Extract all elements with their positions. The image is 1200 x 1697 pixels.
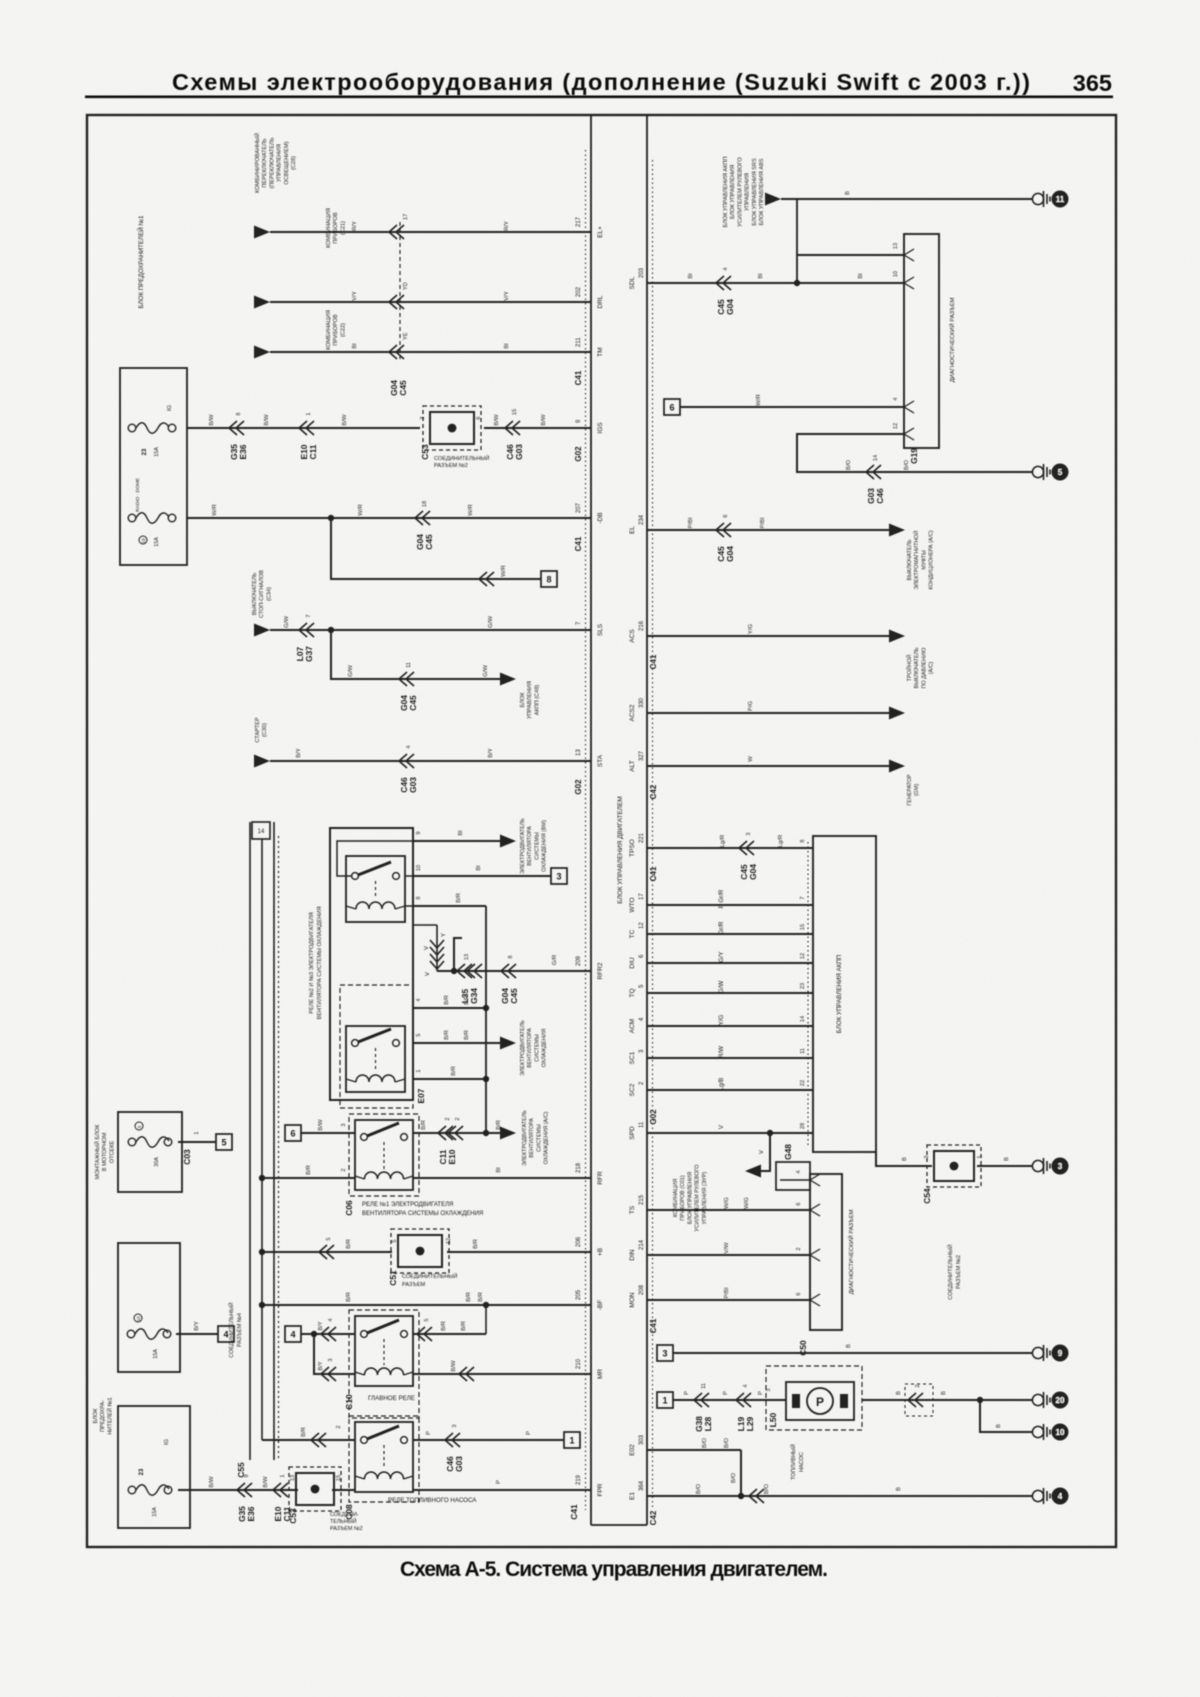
svg-text:R/Y: R/Y bbox=[352, 221, 358, 231]
svg-text:БЛОК УПРАВЛЕНИЯ: БЛОК УПРАВЛЕНИЯ bbox=[730, 165, 736, 219]
svg-text:5: 5 bbox=[1058, 468, 1063, 477]
svg-text:СОЕДИНИТЕЛЬНЫЙ: СОЕДИНИТЕЛЬНЫЙ bbox=[402, 1272, 457, 1280]
svg-text:Bl: Bl bbox=[688, 273, 694, 278]
svg-text:B: B bbox=[996, 1424, 1002, 1428]
svg-text:12: 12 bbox=[893, 423, 899, 429]
wire flag3 row to ground bbox=[657, 1345, 673, 1361]
svg-text:303: 303 bbox=[639, 1434, 645, 1445]
svg-text:C08: C08 bbox=[344, 1504, 354, 1520]
connector C51 - СОЕДИНИТЕЛЬНЫЙ РАЗЪЕМ bbox=[391, 1229, 449, 1273]
fuse box - БЛОК ПРЕДОХРАНИТЕЛЕЙ №1 (top) bbox=[120, 368, 187, 565]
wire C06 pin4 to fan motor A/C bbox=[413, 1132, 500, 1134]
svg-text:ПРИБОРОВ: ПРИБОРОВ bbox=[333, 212, 339, 244]
svg-text:БЛОК ПРЕДОХРАНИТЕЛЕЙ №1: БЛОК ПРЕДОХРАНИТЕЛЕЙ №1 bbox=[137, 215, 145, 308]
svg-text:TPSO: TPSO bbox=[629, 839, 636, 857]
svg-text:214: 214 bbox=[639, 1239, 645, 1250]
svg-text:B/W: B/W bbox=[318, 1119, 324, 1131]
svg-text:B: B bbox=[896, 1391, 902, 1395]
svg-text:ПРИБОРОВ (С01): ПРИБОРОВ (С01) bbox=[680, 1175, 686, 1220]
relay C06 - fan relay no.1 bbox=[349, 1114, 419, 1196]
svg-text:8: 8 bbox=[508, 955, 514, 958]
svg-text:Gr/R: Gr/R bbox=[718, 921, 725, 935]
wire -DB row bbox=[187, 517, 591, 519]
svg-text:B/W: B/W bbox=[451, 1360, 457, 1372]
svg-text:TS: TS bbox=[629, 1205, 636, 1214]
wire C06 pin2 to junction bar bbox=[262, 1177, 355, 1179]
wire fuse to flag 4 bbox=[176, 1333, 218, 1335]
svg-text:ЭЛЕКТРОМАГНИТНОЙ: ЭЛЕКТРОМАГНИТНОЙ bbox=[912, 530, 920, 589]
svg-text:W/G: W/G bbox=[724, 1197, 730, 1209]
svg-text:205: 205 bbox=[576, 1289, 582, 1300]
svg-text:B/O: B/O bbox=[731, 1473, 737, 1484]
svg-text:B/O: B/O bbox=[696, 1484, 702, 1495]
svg-text:(GM): (GM) bbox=[914, 784, 920, 796]
svg-text:207: 207 bbox=[576, 502, 582, 513]
connector C53 - СОЕДИНИТЕЛЬНЫЙ РАЗЪЕМ №2 (bottom) bbox=[289, 1467, 341, 1511]
svg-text:2: 2 bbox=[336, 1425, 342, 1428]
relay box - РЕЛЕ №2 и №3 fan relays (E07) bbox=[330, 828, 413, 1100]
svg-text:Y/G: Y/G bbox=[718, 1014, 725, 1025]
svg-text:18: 18 bbox=[422, 501, 428, 507]
wire pump to grounds bbox=[862, 1399, 1032, 1401]
wire SPD row bbox=[647, 1132, 813, 1134]
svg-text:Bl: Bl bbox=[352, 343, 358, 348]
svg-text:6: 6 bbox=[290, 1128, 295, 1138]
svg-text:327: 327 bbox=[639, 750, 645, 761]
svg-text:15A: 15A bbox=[152, 1507, 158, 1517]
svg-text:14: 14 bbox=[873, 455, 879, 461]
wire MON row bbox=[647, 1299, 810, 1301]
svg-text:B/W: B/W bbox=[209, 1476, 215, 1488]
svg-text:4: 4 bbox=[743, 1384, 749, 1387]
reference flag 6 (right) bbox=[664, 399, 680, 415]
svg-text:C45: C45 bbox=[509, 988, 519, 1004]
svg-text:B/Y: B/Y bbox=[318, 1361, 324, 1370]
svg-text:P/Bl: P/Bl bbox=[724, 1288, 730, 1299]
svg-text:B/O: B/O bbox=[702, 1438, 708, 1449]
svg-text:14: 14 bbox=[258, 829, 265, 835]
svg-text:B/R: B/R bbox=[441, 1321, 447, 1331]
svg-text:V/W: V/W bbox=[724, 1242, 730, 1254]
svg-text:G/R: G/R bbox=[552, 955, 558, 965]
svg-text:215: 215 bbox=[639, 1194, 645, 1205]
svg-text:6: 6 bbox=[796, 1202, 802, 1205]
svg-text:B/R: B/R bbox=[444, 1030, 450, 1040]
svg-text:13: 13 bbox=[576, 749, 582, 756]
svg-text:V: V bbox=[425, 972, 431, 976]
svg-text:ЭЛЕКТРОДВИГАТЕЛЬ: ЭЛЕКТРОДВИГАТЕЛЬ bbox=[522, 1110, 528, 1166]
svg-text:СОЕДИНИТЕЛЬНЫЙ: СОЕДИНИТЕЛЬНЫЙ bbox=[946, 1244, 954, 1299]
svg-text:12: 12 bbox=[800, 953, 806, 959]
svg-text:ТРОЙНОЙ: ТРОЙНОЙ bbox=[905, 654, 913, 681]
svg-text:РЕЛЕ №1 ЭЛЕКТРОДВИГАТЕЛЯ: РЕЛЕ №1 ЭЛЕКТРОДВИГАТЕЛЯ bbox=[362, 1201, 453, 1208]
wire STA row bbox=[254, 755, 270, 768]
svg-text:БЛОК: БЛОК bbox=[93, 1408, 99, 1424]
svg-text:11: 11 bbox=[701, 1383, 707, 1389]
svg-text:B/W: B/W bbox=[541, 414, 547, 426]
svg-text:ВЕНТИЛЯТОРА: ВЕНТИЛЯТОРА bbox=[527, 1028, 533, 1068]
wire ACS row bbox=[647, 635, 889, 637]
svg-text:B/Y: B/Y bbox=[318, 1321, 324, 1330]
svg-text:9: 9 bbox=[416, 831, 422, 834]
svg-text:3: 3 bbox=[556, 871, 561, 881]
svg-text:ДИАГНОСТИЧЕСКИЙ РАЗЪЕМ: ДИАГНОСТИЧЕСКИЙ РАЗЪЕМ bbox=[948, 297, 956, 382]
ground G1 bbox=[1032, 193, 1043, 204]
svg-text:B/R: B/R bbox=[301, 1427, 307, 1437]
svg-text:ACM: ACM bbox=[629, 1019, 636, 1033]
svg-text:КОМБИНАЦИЯ: КОМБИНАЦИЯ bbox=[326, 208, 332, 248]
wire relay3 coil out bbox=[413, 1078, 486, 1080]
svg-text:СИСТЕМЫ: СИСТЕМЫ bbox=[536, 1124, 542, 1152]
svg-text:3: 3 bbox=[924, 1155, 930, 1158]
svg-text:B/W: B/W bbox=[209, 414, 215, 426]
svg-text:17: 17 bbox=[639, 893, 645, 900]
svg-text:6: 6 bbox=[723, 514, 729, 517]
svg-text:ВЕНТИЛЯТОРА: ВЕНТИЛЯТОРА bbox=[529, 1118, 535, 1158]
svg-text:G/Y: G/Y bbox=[718, 952, 725, 963]
svg-text:РЕЛЕ №2 И №3 ЭЛЕКТРОДВИГАТЕЛЯ: РЕЛЕ №2 И №3 ЭЛЕКТРОДВИГАТЕЛЯ bbox=[309, 912, 315, 1013]
svg-text:L28: L28 bbox=[703, 1416, 713, 1431]
svg-text:C53: C53 bbox=[420, 444, 430, 460]
wire fan motor 1 row bbox=[413, 840, 500, 842]
svg-text:YD: YD bbox=[403, 282, 409, 290]
svg-text:B/R: B/R bbox=[496, 1120, 502, 1130]
svg-text:8: 8 bbox=[416, 896, 422, 899]
svg-text:B/R: B/R bbox=[306, 1165, 312, 1175]
svg-text:(С34): (С34) bbox=[266, 587, 272, 601]
svg-text:WTO: WTO bbox=[629, 897, 636, 912]
svg-text:КОМБИНИРОВАННЫЙ: КОМБИНИРОВАННЫЙ bbox=[253, 133, 261, 193]
svg-text:ПРИБОРОВ: ПРИБОРОВ bbox=[333, 314, 339, 346]
svg-text:P/G: P/G bbox=[748, 701, 754, 712]
svg-text:365: 365 bbox=[1073, 70, 1112, 96]
ground G6 bbox=[1032, 1426, 1043, 1437]
svg-text:(С28): (С28) bbox=[291, 156, 297, 170]
svg-text:14: 14 bbox=[800, 1016, 806, 1022]
svg-text:B/R: B/R bbox=[466, 1292, 472, 1302]
svg-text:SPD: SPD bbox=[629, 1126, 636, 1140]
svg-text:Bl: Bl bbox=[858, 273, 864, 278]
reference flag 6 bbox=[285, 1125, 301, 1141]
svg-text:G/W: G/W bbox=[488, 616, 494, 628]
relay 3 (lower) internals bbox=[340, 985, 413, 1108]
svg-text:C41: C41 bbox=[574, 536, 583, 551]
wire relay3 pin4 bbox=[413, 1007, 486, 1009]
svg-text:(С30): (С30) bbox=[262, 723, 268, 737]
svg-text:ACS2: ACS2 bbox=[629, 704, 636, 721]
svg-text:СИСТЕМЫ: СИСТЕМЫ bbox=[534, 832, 540, 860]
svg-text:P/Bl: P/Bl bbox=[688, 518, 694, 529]
svg-text:12: 12 bbox=[446, 1238, 452, 1244]
svg-text:-BF: -BF bbox=[597, 1300, 604, 1311]
reference flag 5 bbox=[216, 1134, 232, 1150]
wire E1 row to ground bbox=[647, 1495, 1032, 1497]
svg-text:ВЕНТИЛЯТОРА: ВЕНТИЛЯТОРА bbox=[527, 826, 533, 866]
svg-text:217: 217 bbox=[576, 216, 582, 227]
svg-text:B/O: B/O bbox=[724, 1438, 730, 1449]
diagnostic connector no.1 box bbox=[904, 234, 939, 448]
svg-text:Y: Y bbox=[441, 933, 447, 937]
svg-text:4: 4 bbox=[893, 397, 899, 400]
outer schematic frame bbox=[87, 115, 1116, 1547]
svg-text:ДИАГНОСТИЧЕСКИЙ РАЗЪЕМ: ДИАГНОСТИЧЕСКИЙ РАЗЪЕМ bbox=[847, 1209, 855, 1294]
svg-text:БЛОК УПРАВЛЕНИЯ: БЛОК УПРАВЛЕНИЯ bbox=[687, 1172, 693, 1224]
ground G7 bbox=[1032, 1490, 1043, 1501]
svg-text:B/Y: B/Y bbox=[488, 748, 494, 758]
svg-text:TC: TC bbox=[629, 929, 636, 938]
wire relay coil B/R down-link bbox=[413, 905, 486, 907]
svg-text:8: 8 bbox=[236, 412, 242, 415]
svg-text:Схема А-5. Система управления: Схема А-5. Система управления двигателем… bbox=[400, 1558, 828, 1581]
svg-text:11: 11 bbox=[1056, 195, 1065, 204]
wire branch -DB to flag B bbox=[331, 518, 541, 579]
svg-text:B/O: B/O bbox=[846, 460, 852, 471]
svg-text:E10: E10 bbox=[447, 1149, 457, 1164]
svg-text:C41: C41 bbox=[649, 866, 658, 881]
svg-text:5: 5 bbox=[424, 1318, 430, 1321]
svg-text:15A: 15A bbox=[154, 537, 160, 547]
svg-text:B/R: B/R bbox=[478, 1292, 484, 1302]
reference flag 8 bbox=[541, 571, 557, 587]
svg-text:3: 3 bbox=[766, 1388, 772, 1391]
ground G4 bbox=[1032, 1347, 1043, 1358]
svg-text:ВЫКЛЮЧАТЕЛЬ: ВЫКЛЮЧАТЕЛЬ bbox=[907, 539, 913, 581]
svg-text:4: 4 bbox=[290, 1329, 295, 1339]
connector C54 - СОЕДИНИТЕЛЬНЫЙ РАЗЪЕМ №2 bbox=[927, 1145, 981, 1187]
svg-text:10: 10 bbox=[136, 1316, 141, 1322]
svg-text:G34: G34 bbox=[469, 988, 479, 1004]
ground G2 bbox=[1032, 466, 1043, 477]
svg-text:1: 1 bbox=[416, 1069, 422, 1072]
svg-text:C41: C41 bbox=[574, 370, 583, 385]
svg-text:W/R: W/R bbox=[756, 394, 762, 405]
svg-text:5: 5 bbox=[416, 1033, 422, 1036]
svg-text:216: 216 bbox=[639, 620, 645, 631]
svg-text:G04: G04 bbox=[725, 546, 735, 562]
svg-text:G/W: G/W bbox=[284, 616, 290, 628]
svg-text:V: V bbox=[759, 1150, 765, 1154]
svg-text:4: 4 bbox=[796, 1170, 802, 1173]
svg-text:РАЗЪЕМ: РАЗЪЕМ bbox=[402, 1282, 426, 1288]
svg-text:TQ: TQ bbox=[629, 988, 636, 997]
wire RFR row bbox=[413, 1177, 591, 1179]
svg-text:C06: C06 bbox=[344, 1200, 354, 1216]
svg-text:202: 202 bbox=[576, 286, 582, 297]
svg-text:БЛОК УПРАВЛЕНИЯ ABS: БЛОК УПРАВЛЕНИЯ ABS bbox=[759, 158, 765, 225]
wire to diag pin 13 bbox=[797, 254, 904, 256]
svg-text:G03: G03 bbox=[514, 444, 524, 460]
svg-text:W/G: W/G bbox=[744, 1197, 750, 1209]
svg-text:P: P bbox=[723, 1391, 729, 1395]
svg-text:1: 1 bbox=[662, 1395, 667, 1405]
svg-text:P: P bbox=[758, 1391, 764, 1395]
wire DRL row bbox=[254, 296, 270, 309]
svg-text:B/W: B/W bbox=[263, 1476, 269, 1488]
svg-text:G02: G02 bbox=[574, 779, 583, 795]
svg-text:Bl: Bl bbox=[496, 1167, 502, 1172]
svg-text:P: P bbox=[526, 1431, 532, 1435]
svg-text:4: 4 bbox=[416, 998, 422, 1001]
svg-text:РАЗЪЕМ №2: РАЗЪЕМ №2 bbox=[434, 463, 468, 469]
svg-text:G03: G03 bbox=[408, 777, 418, 793]
svg-text:E1: E1 bbox=[629, 1492, 636, 1500]
svg-text:EL: EL bbox=[629, 526, 636, 534]
wire WTO row bbox=[647, 904, 813, 906]
wire TQ row bbox=[647, 992, 813, 994]
svg-text:3: 3 bbox=[452, 1424, 458, 1427]
wire ACM row bbox=[647, 1025, 813, 1027]
wire G19 row to ground bbox=[797, 434, 1032, 472]
svg-text:Схемы электрооборудования (доп: Схемы электрооборудования (дополнение (S… bbox=[172, 69, 1030, 95]
reference flag 4 (right) bbox=[285, 1326, 301, 1342]
svg-text:C45: C45 bbox=[424, 534, 434, 550]
svg-text:ГЕНЕРАТОР: ГЕНЕРАТОР bbox=[907, 774, 913, 806]
svg-text:RFR: RFR bbox=[597, 1171, 604, 1185]
svg-text:C41: C41 bbox=[569, 1504, 579, 1520]
svg-text:B/R: B/R bbox=[346, 1239, 352, 1249]
svg-text:L29: L29 bbox=[745, 1416, 755, 1431]
svg-text:SC2: SC2 bbox=[629, 1083, 636, 1096]
svg-text:B: B bbox=[941, 1391, 947, 1395]
wire bar to C08 pin2 bbox=[262, 1439, 355, 1441]
wire SC1 row bbox=[647, 1057, 813, 1059]
svg-text:1: 1 bbox=[280, 1474, 286, 1477]
svg-text:15: 15 bbox=[512, 409, 518, 415]
svg-text:ЭЛЕКТРОДВИГАТЕЛЬ: ЭЛЕКТРОДВИГАТЕЛЬ bbox=[520, 1020, 526, 1076]
svg-text:УПРАВЛЕНИЯ: УПРАВЛЕНИЯ bbox=[527, 681, 533, 719]
relay C10 - ГЛАВНОЕ РЕЛЕ bbox=[349, 1310, 419, 1418]
wire relay3 switch out to fan motor 2 bbox=[413, 1042, 500, 1044]
wire fuel pump row bbox=[657, 1392, 673, 1408]
svg-text:330: 330 bbox=[639, 697, 645, 708]
svg-text:Bl: Bl bbox=[476, 865, 482, 870]
svg-text:5: 5 bbox=[326, 1237, 332, 1240]
svg-text:СИСТЕМЫ: СИСТЕМЫ bbox=[534, 1034, 540, 1062]
svg-text:E36: E36 bbox=[246, 1506, 256, 1521]
svg-text:B: B bbox=[1004, 1157, 1010, 1161]
svg-text:V: V bbox=[424, 946, 430, 950]
svg-text:ВЫКЛЮЧАТЕЛЬ: ВЫКЛЮЧАТЕЛЬ bbox=[914, 647, 920, 689]
svg-text:БЛОК УПРАВЛЕНИЯ АКПП: БЛОК УПРАВЛЕНИЯ АКПП bbox=[836, 955, 843, 1033]
svg-text:ВЫКЛЮЧАТЕЛЬ: ВЫКЛЮЧАТЕЛЬ bbox=[252, 572, 258, 615]
svg-text:22: 22 bbox=[800, 1080, 806, 1086]
wire C06 pin3 to flag 6 bbox=[301, 1132, 355, 1134]
svg-text:12: 12 bbox=[639, 922, 645, 929]
svg-text:5: 5 bbox=[137, 1125, 142, 1128]
connector C53 - СОЕДИНИТЕЛЬНЫЙ РАЗЪЕМ №2 (top) bbox=[423, 406, 481, 450]
wire E02 row bbox=[647, 1449, 741, 1451]
svg-text:ALT: ALT bbox=[629, 760, 636, 771]
svg-text:SDL: SDL bbox=[629, 276, 636, 289]
svg-text:8: 8 bbox=[546, 574, 551, 584]
svg-text:B/R: B/R bbox=[421, 1120, 427, 1130]
svg-text:EL+: EL+ bbox=[597, 226, 604, 238]
wire TC row bbox=[647, 933, 813, 935]
svg-text:R/W: R/W bbox=[718, 1046, 725, 1058]
svg-text:ГЛАВНОЕ РЕЛЕ: ГЛАВНОЕ РЕЛЕ bbox=[368, 1395, 415, 1402]
svg-text:СОЕДИНИТЕЛЬНЫЙ: СОЕДИНИТЕЛЬНЫЙ bbox=[434, 454, 489, 462]
svg-text:B: B bbox=[896, 1487, 902, 1491]
svg-text:G/W: G/W bbox=[718, 981, 725, 994]
wire TM row bbox=[254, 346, 270, 359]
svg-text:G03: G03 bbox=[454, 1456, 464, 1472]
wire feed to C53 bottom bbox=[178, 1489, 298, 1491]
svg-text:B/Y: B/Y bbox=[194, 1321, 200, 1331]
wire SDL branch vertical bbox=[796, 199, 798, 283]
connector boundary along A/T unit pins bbox=[807, 842, 809, 1148]
svg-text:1: 1 bbox=[569, 1435, 574, 1445]
svg-text:4: 4 bbox=[723, 267, 729, 270]
svg-text:ТОПЛИВНЫЙ: ТОПЛИВНЫЙ bbox=[789, 1444, 797, 1480]
svg-text:(ПЕРЕКЛЮЧАТЕЛЬ: (ПЕРЕКЛЮЧАТЕЛЬ bbox=[269, 137, 275, 188]
svg-text:218: 218 bbox=[576, 1162, 582, 1173]
svg-text:G37: G37 bbox=[304, 646, 314, 662]
svg-text:RADIO · DOME: RADIO · DOME bbox=[135, 478, 141, 512]
wire top B row to ground bbox=[765, 193, 781, 206]
svg-text:R/Y: R/Y bbox=[504, 221, 510, 231]
fuse 23 15A IG bbox=[128, 424, 136, 432]
svg-text:2: 2 bbox=[455, 1117, 461, 1120]
svg-text:3: 3 bbox=[341, 1123, 347, 1126]
fuse box - БЛОК ПРЕДОХРАНИТЕЛЕЙ №1 (bottom) bbox=[118, 1406, 190, 1528]
svg-text:30A: 30A bbox=[154, 1157, 160, 1167]
svg-text:17: 17 bbox=[403, 214, 409, 220]
svg-text:2: 2 bbox=[445, 1117, 451, 1120]
wire ALT row bbox=[647, 765, 889, 767]
svg-text:11: 11 bbox=[406, 662, 412, 668]
relay 2 (upper) internals bbox=[346, 856, 405, 922]
svg-text:B/R: B/R bbox=[346, 1292, 352, 1302]
svg-text:19: 19 bbox=[141, 538, 146, 544]
wire C03 to flag 5 bbox=[178, 1141, 216, 1143]
svg-text:БЛОК УПРАВЛЕНИЯ SRS: БЛОК УПРАВЛЕНИЯ SRS bbox=[752, 158, 758, 226]
svg-text:ОХЛАЖДЕНИЯ (А/С): ОХЛАЖДЕНИЯ (А/С) bbox=[544, 1111, 550, 1164]
svg-text:2: 2 bbox=[341, 1168, 347, 1171]
svg-text:P: P bbox=[684, 1391, 690, 1395]
wire SPD branch to cluster bbox=[761, 1133, 770, 1171]
svg-text:208: 208 bbox=[639, 1284, 645, 1295]
svg-text:7: 7 bbox=[306, 614, 312, 617]
wire SLS row bbox=[254, 624, 270, 637]
svg-text:B/R: B/R bbox=[464, 1030, 470, 1040]
reference flag 4 (left) bbox=[218, 1326, 234, 1342]
svg-text:MR: MR bbox=[597, 1369, 604, 1379]
svg-text:Lg/R: Lg/R bbox=[720, 835, 726, 847]
reference flag 3 bbox=[551, 868, 567, 884]
svg-text:13: 13 bbox=[464, 954, 470, 960]
svg-text:P: P bbox=[816, 1395, 824, 1409]
svg-text:G19: G19 bbox=[909, 448, 919, 464]
svg-text:+B: +B bbox=[597, 1248, 604, 1256]
wire IGS row bbox=[187, 427, 420, 429]
svg-text:B/W: B/W bbox=[264, 414, 270, 426]
svg-text:3: 3 bbox=[746, 832, 752, 835]
svg-text:-DB: -DB bbox=[597, 512, 604, 523]
svg-text:B: B bbox=[902, 1157, 908, 1161]
wire V/Y cluster to RFR2 bbox=[413, 924, 437, 926]
svg-text:C41: C41 bbox=[649, 1318, 658, 1333]
svg-text:G/W: G/W bbox=[483, 665, 489, 677]
svg-text:АКПП (С48): АКПП (С48) bbox=[534, 685, 540, 716]
svg-text:Bl: Bl bbox=[758, 273, 764, 278]
svg-text:6: 6 bbox=[669, 402, 674, 412]
svg-text:E36: E36 bbox=[238, 444, 248, 459]
svg-text:4: 4 bbox=[223, 1329, 228, 1339]
svg-text:B/O: B/O bbox=[904, 460, 910, 471]
fuse 19 RADIO DOME 15A bbox=[128, 514, 136, 522]
wire -BF row bbox=[262, 1304, 591, 1306]
svg-text:364: 364 bbox=[639, 1480, 645, 1491]
